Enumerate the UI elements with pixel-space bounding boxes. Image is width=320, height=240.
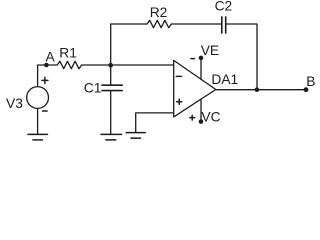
VC pin dot bbox=[199, 119, 204, 124]
ground below C1 bbox=[101, 134, 122, 140]
V3 minus mark bbox=[43, 110, 48, 112]
VE pin wire bbox=[200, 58, 202, 79]
VC pin wire bbox=[200, 99, 202, 121]
svg-text:R2: R2 bbox=[150, 5, 168, 20]
wire C2 right and down to output bbox=[226, 24, 257, 90]
node A junction dot bbox=[44, 63, 49, 68]
wire junction up to top rail bbox=[110, 24, 112, 65]
node B dot bbox=[304, 87, 309, 92]
wire R2 to C2 bbox=[171, 23, 221, 25]
wire V3 top to node A corner bbox=[38, 65, 58, 87]
wire C1 to ground bbox=[110, 91, 112, 134]
resistor R1 zigzag bbox=[57, 61, 81, 68]
feedback junction dot bbox=[255, 87, 260, 92]
svg-text:DA1: DA1 bbox=[211, 72, 238, 87]
svg-text:VE: VE bbox=[201, 43, 219, 58]
wire V3 bottom bbox=[37, 108, 39, 134]
svg-text:R1: R1 bbox=[59, 46, 77, 61]
op-amp DA1 triangle bbox=[174, 60, 216, 117]
V3 plus mark bbox=[42, 77, 48, 83]
voltage source V3 circle bbox=[27, 87, 49, 109]
svg-text:C1: C1 bbox=[84, 80, 102, 95]
wire R1 to op-amp minus input bbox=[82, 64, 174, 66]
VE minus mark bbox=[191, 58, 195, 60]
output wire to node B bbox=[216, 89, 306, 91]
svg-text:V3: V3 bbox=[6, 96, 23, 111]
svg-text:A: A bbox=[46, 50, 56, 65]
wire plus input to ground bbox=[136, 113, 174, 132]
resistor R2 zigzag bbox=[147, 20, 171, 27]
ground below op-amp plus input bbox=[126, 133, 145, 139]
wire top rail left bbox=[111, 23, 147, 25]
op-amp plus input mark bbox=[177, 99, 182, 104]
op-amp minus input mark bbox=[176, 75, 181, 77]
svg-text:VC: VC bbox=[201, 109, 220, 124]
VE pin dot bbox=[199, 56, 204, 61]
capacitor C1 plates bbox=[102, 85, 122, 90]
capacitor C2 plates bbox=[222, 17, 226, 33]
svg-text:C2: C2 bbox=[215, 0, 233, 14]
ground below V3 bbox=[28, 134, 48, 140]
wire junction down to C1 bbox=[110, 65, 112, 84]
junction dot at R1/C1/R2 node bbox=[108, 63, 113, 68]
VC plus mark bbox=[190, 115, 195, 120]
svg-text:B: B bbox=[306, 74, 315, 89]
